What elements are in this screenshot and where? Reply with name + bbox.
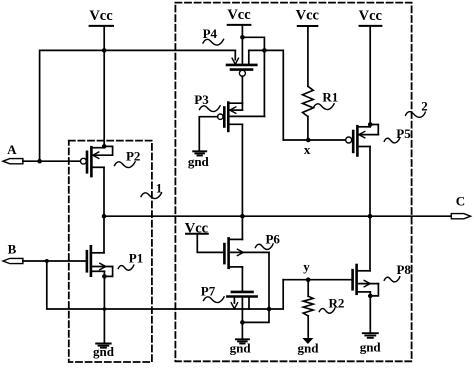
svg-text:A: A	[7, 142, 17, 157]
node x	[306, 138, 311, 143]
resistor R1	[303, 26, 314, 140]
svg-text:Vcc: Vcc	[359, 8, 383, 24]
label R2	[319, 296, 344, 314]
terminal A	[3, 142, 23, 164]
transistor P4	[227, 50, 256, 76]
wire P4 gate down to P3 drain	[241, 76, 243, 110]
junction dot P4 drain	[240, 35, 245, 40]
junction dot (242.4,322.4)	[240, 320, 245, 325]
wire P6 bulk loop around P7	[242, 252, 269, 322]
svg-text:R2: R2	[329, 296, 345, 311]
label P1	[118, 251, 143, 271]
wire P3 mid line	[228, 115, 264, 117]
wire output C line	[104, 215, 451, 217]
svg-text:2: 2	[421, 99, 428, 114]
dashed box 1	[69, 141, 152, 362]
wire P2 source to P1 drain	[103, 167, 105, 253]
junction dot on C wire (left column)	[102, 214, 107, 219]
svg-text:C: C	[456, 194, 465, 209]
label 1	[141, 180, 162, 198]
transistor P6	[224, 238, 269, 267]
power Vcc (above R1)	[296, 8, 320, 27]
label P6	[255, 232, 280, 250]
junction dot P5 drain-bulk	[368, 122, 373, 127]
label P2	[115, 149, 141, 168]
power Vcc (above P6)	[185, 220, 209, 236]
wire B to P1 gate	[23, 260, 87, 262]
label P7	[201, 283, 224, 302]
svg-text:gnd: gnd	[93, 344, 115, 359]
svg-text:gnd: gnd	[298, 341, 320, 356]
wire P6 gate to Vcc	[197, 234, 224, 253]
junction dot right column on C wire	[368, 214, 373, 219]
transistor P3	[218, 103, 243, 131]
ground (below P1)	[93, 344, 115, 360]
wire P5 drain vertical to Vcc	[369, 26, 371, 127]
wire P4 Vcc vertical to channel	[241, 25, 243, 65]
junction dot at (264.4,50.4)	[262, 48, 267, 53]
svg-text:Vcc: Vcc	[89, 8, 113, 24]
junction dot P2 drain-bulk	[102, 144, 107, 149]
svg-text:R1: R1	[322, 90, 338, 105]
svg-text:y: y	[303, 259, 310, 274]
resistor R2	[303, 280, 313, 338]
node y	[306, 277, 311, 282]
terminal C	[451, 194, 470, 219]
junction dot central column on C wire	[240, 214, 245, 219]
junction dot P1 source-bulk	[102, 274, 107, 279]
wire P3 gate to gnd	[199, 117, 217, 152]
wire B branch down and right to P7 area	[47, 261, 283, 309]
wire top long horizontal to P4 bulk	[40, 50, 236, 161]
ground (below P8)	[360, 333, 382, 354]
junction dot (269,309)	[267, 307, 272, 312]
dashed box 2	[175, 3, 411, 362]
transistor P1	[87, 246, 113, 276]
svg-text:B: B	[8, 241, 17, 256]
ground (P3 gate)	[188, 151, 210, 169]
wire Vcc left vertical down through junction to P2 drain	[103, 26, 105, 148]
power Vcc (left, above P2)	[89, 8, 113, 26]
junction dot P8 source-bulk	[368, 294, 373, 299]
label P4	[203, 26, 224, 45]
terminal B	[3, 241, 23, 263]
junction dot B-branch crossing	[103, 307, 107, 311]
transistor P5	[346, 125, 379, 156]
wire P7 drain down to gnd	[241, 297, 243, 340]
svg-text:gnd: gnd	[188, 154, 210, 169]
svg-text:P1: P1	[129, 251, 143, 266]
wire P4 source span right	[249, 50, 283, 140]
node B junction dot	[45, 259, 49, 263]
wire P1 source down to gnd	[103, 271, 105, 343]
svg-text:P7: P7	[201, 283, 216, 298]
power Vcc (above P4)	[227, 7, 251, 25]
label P3	[194, 92, 220, 111]
ground (below R2, triangle)	[298, 338, 320, 356]
transistor P8	[353, 265, 379, 296]
wire P3 source down to P6 drain	[241, 124, 243, 239]
wire P6 source to P7 gate	[241, 267, 243, 292]
label P8	[384, 262, 411, 282]
wire P5 source down to P8 drain	[369, 147, 371, 271]
wire y node to P8 gate	[283, 279, 352, 281]
svg-text:Vcc: Vcc	[296, 8, 320, 24]
wire A to P2 gate	[23, 160, 81, 162]
junction dot at (104.2,50.4)	[102, 48, 107, 53]
svg-text:P5: P5	[396, 126, 411, 141]
power Vcc (above P5)	[359, 8, 383, 26]
label 2	[406, 99, 428, 118]
ground (below P7)	[230, 339, 252, 355]
svg-text:P8: P8	[396, 262, 411, 277]
wire x node to P5 gate	[283, 139, 345, 141]
svg-text:gnd: gnd	[230, 340, 252, 355]
svg-text:Vcc: Vcc	[227, 7, 251, 23]
svg-text:P2: P2	[126, 149, 140, 164]
transistor P7	[227, 292, 256, 309]
wire P4 drain loop right and down to P3	[242, 37, 264, 116]
svg-text:x: x	[304, 142, 311, 157]
label R1	[314, 90, 339, 110]
svg-text:gnd: gnd	[360, 339, 382, 354]
svg-text:P3: P3	[194, 92, 209, 107]
node A junction dot	[37, 159, 42, 164]
svg-text:P4: P4	[203, 26, 218, 41]
label P5	[384, 126, 411, 143]
transistor P2	[81, 146, 113, 176]
wire P8 source down to gnd	[369, 292, 371, 333]
